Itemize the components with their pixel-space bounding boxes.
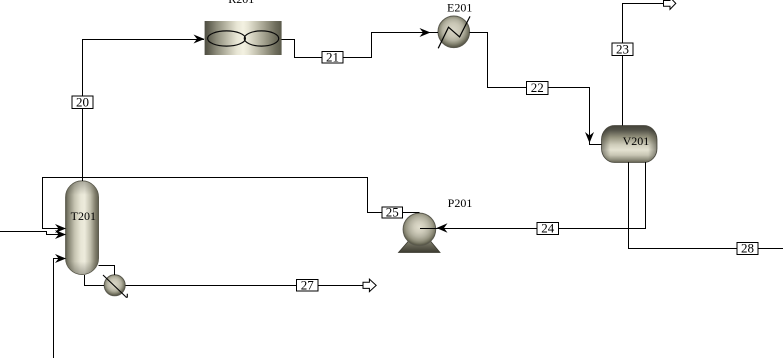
wire feed from left edge (0, 232, 66, 235)
wire stream 24: V201 bottom to pump inlet (420, 162, 646, 229)
svg-text:24: 24 (541, 221, 555, 236)
svg-text:P201: P201 (448, 196, 473, 210)
svg-text:23: 23 (616, 41, 629, 56)
arrowhead recycle into column (55, 224, 66, 233)
svg-text:R201: R201 (228, 0, 254, 6)
heat exchanger E201 (438, 0, 472, 48)
wire stream 28: V201 bottom to right edge (629, 162, 783, 249)
reactor R201 (205, 0, 282, 55)
flash drum V201 (602, 126, 658, 163)
wire stream 23: V201 top to product arrow (623, 4, 664, 126)
wire column bottom to reboiler left (85, 275, 105, 286)
open arrow stream 27 outlet (363, 279, 376, 292)
column T201 (66, 181, 99, 275)
stream label 28 (737, 241, 758, 256)
arrowhead into V201 (585, 132, 594, 143)
wire stream 21: reactor outlet to E201 inlet (282, 33, 439, 58)
wire stream 27: reboiler right to product arrow (126, 285, 364, 287)
svg-text:20: 20 (76, 94, 89, 109)
pump P201 (399, 196, 473, 253)
svg-text:22: 22 (531, 80, 544, 95)
arrowhead into pump P201 (437, 223, 448, 232)
stream label 21 (322, 49, 343, 64)
wire column bottom to reboiler top (99, 266, 115, 276)
open arrow stream 23 outlet (664, 0, 676, 9)
wire feed from bottom edge (54, 259, 66, 358)
svg-text:T201: T201 (71, 209, 96, 223)
arrowhead into E201 (420, 28, 431, 37)
svg-text:27: 27 (301, 278, 315, 293)
stream label 22 (527, 80, 549, 95)
arrowhead feed into column (55, 230, 66, 239)
svg-text:E201: E201 (447, 0, 472, 14)
svg-text:25: 25 (386, 205, 399, 220)
arrowhead bottom feed into column (55, 254, 66, 263)
svg-text:21: 21 (326, 49, 339, 64)
stream label 20 (72, 94, 93, 109)
stream label 24 (537, 221, 559, 236)
stream label 25 (382, 205, 403, 220)
wire stream 22: E201 outlet to V201 inlet (470, 33, 602, 145)
wire stream 25: pump outlet to column feed (43, 178, 420, 229)
stream label 23 (612, 41, 633, 56)
stream label 27 (297, 278, 319, 293)
arrowhead into R201 (194, 35, 205, 44)
svg-text:V201: V201 (623, 134, 650, 148)
wire stream 20: column top to reactor inlet (83, 40, 205, 182)
svg-text:28: 28 (741, 241, 754, 256)
reboiler valve circle (103, 275, 127, 297)
